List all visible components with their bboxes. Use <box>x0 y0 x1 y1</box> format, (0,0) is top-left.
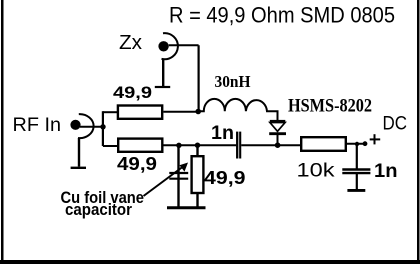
svg-text:49,9: 49,9 <box>204 167 246 188</box>
connector J1 Zx shell arc <box>162 33 178 59</box>
resistor R1 body <box>118 106 162 119</box>
node C junction <box>275 142 281 148</box>
wire rail to R2 <box>103 145 118 147</box>
border right <box>417 0 420 264</box>
wire R4 to node DC <box>346 143 364 145</box>
trimmer C3 plate bottom <box>169 178 188 180</box>
border bottom <box>0 260 420 264</box>
svg-text:Zx: Zx <box>119 31 143 54</box>
wire Zx to rail <box>169 44 199 46</box>
wire R2 to C1 <box>164 144 237 146</box>
trimmer C3 stem <box>177 145 179 206</box>
ground RF In stem <box>78 138 80 167</box>
wire left rail <box>102 111 104 146</box>
svg-text:1n: 1n <box>374 160 398 182</box>
connector J1 Zx dot <box>158 41 168 51</box>
wire C2 to ground <box>356 174 358 189</box>
resistor R2 body <box>118 139 162 152</box>
plus sign <box>370 138 381 140</box>
svg-text:49,9: 49,9 <box>117 154 157 174</box>
inductor L1 <box>199 99 278 120</box>
node DC stub dot <box>363 141 368 146</box>
wire Zx drop rail <box>198 45 200 111</box>
resistor R3 body <box>192 156 204 193</box>
diode D1 triangle <box>270 123 285 132</box>
svg-text:1n: 1n <box>211 123 234 144</box>
svg-text:10k: 10k <box>297 160 335 182</box>
svg-text:30nH: 30nH <box>215 72 251 91</box>
ground RF In bar <box>71 167 86 169</box>
resistor R3 stub bottom <box>196 193 198 207</box>
border left <box>1 0 4 264</box>
node DC junction <box>355 142 359 146</box>
node trimmer junction <box>176 143 181 148</box>
svg-text:capacitor: capacitor <box>65 200 132 219</box>
svg-text:R = 49,9 Ohm SMD 0805: R = 49,9 Ohm SMD 0805 <box>169 3 395 28</box>
ground Zx stem <box>162 59 164 86</box>
capacitor C1 plate left <box>236 132 238 159</box>
capacitor C1 plate right <box>239 132 241 159</box>
node B junction <box>195 109 201 115</box>
diode D1 top bar <box>270 120 286 123</box>
trimmer C3 arrow line <box>144 166 185 197</box>
resistor R4 body <box>301 137 346 151</box>
node R3 junction <box>195 143 200 148</box>
wire R1 to node B <box>163 111 198 113</box>
svg-text:49,9: 49,9 <box>113 83 152 102</box>
capacitor C2 plate top <box>342 168 370 170</box>
svg-text:DC: DC <box>383 114 408 135</box>
ground Zx bar <box>155 86 170 88</box>
wire C1 to R4 <box>241 144 300 146</box>
trimmer C3 plate top <box>169 172 188 174</box>
resistor R3 stub top <box>196 145 198 156</box>
capacitor C2 plate bottom <box>342 172 370 174</box>
wire node DC to C2 <box>356 144 358 170</box>
svg-text:RF In: RF In <box>13 115 62 136</box>
svg-text:HSMS-8202: HSMS-8202 <box>288 97 372 117</box>
diode D1 cathode bar <box>269 132 286 135</box>
node RF In rail junction <box>100 124 105 129</box>
ground bar C2 <box>347 189 365 192</box>
wire RF In to rail <box>80 126 103 128</box>
trimmer C3 arrowhead <box>179 163 188 172</box>
wire rail to R1 <box>103 111 118 113</box>
connector J2 RF In shell arc <box>78 114 94 138</box>
connector J2 RF In dot <box>70 120 80 130</box>
wire D1 to node C <box>277 135 279 145</box>
ground bar R3 trimmer <box>167 206 206 209</box>
